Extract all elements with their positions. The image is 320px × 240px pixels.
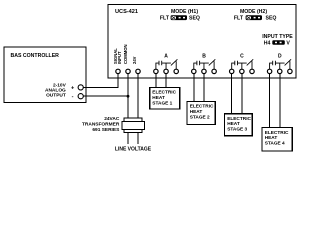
terminal D2 [278,69,282,73]
terminal COMMON [126,69,130,73]
svg-text:ELECTRIC: ELECTRIC [265,130,289,136]
junction node [127,95,130,98]
svg-text:FLT: FLT [234,16,244,22]
svg-text:24V: 24V [132,56,137,64]
svg-text:V: V [286,41,290,47]
terminal C1 [230,69,234,73]
terminal D1 [267,69,271,73]
terminal BAS - [78,94,83,99]
wire B1 to stage 2 [193,74,195,102]
svg-text:BAS CONTROLLER: BAS CONTROLLER [11,53,60,59]
terminal D3 [288,69,292,73]
svg-text:STAGE 3: STAGE 3 [227,127,247,133]
svg-text:ELECTRIC: ELECTRIC [190,104,214,110]
relay contact A [156,59,178,69]
svg-text:STAGE 4: STAGE 4 [265,141,285,147]
wire A2 to stage 1 [165,74,167,88]
svg-text:B: B [202,53,206,59]
terminal A2 [164,69,168,73]
svg-text:SEQ: SEQ [266,16,277,22]
svg-text:STAGE 1: STAGE 1 [152,100,172,106]
jumper block W2 (MODE H2) [246,15,262,20]
relay contact B [194,59,216,69]
svg-text:A: A [164,53,168,59]
svg-text:SEQ: SEQ [189,16,200,22]
svg-text:FLT: FLT [160,16,170,22]
svg-text:STAGE 2: STAGE 2 [190,114,210,120]
wire D2 to stage 4 [279,74,281,128]
svg-text:-: - [72,94,74,100]
UCS-421 controller box U1 [108,5,296,79]
terminal C2 [240,69,244,73]
terminal 24V [136,69,140,73]
wire BAS - to COMMON [83,95,128,97]
svg-text:HEAT: HEAT [152,95,165,101]
terminal BAS + [78,85,83,90]
svg-text:D: D [278,53,282,59]
svg-text:UCS-421: UCS-421 [115,9,138,15]
svg-text:691 SERIES: 691 SERIES [92,127,120,133]
terminal A1 [154,69,158,73]
electric heat stage 4 box [262,128,292,151]
svg-text:ELECTRIC: ELECTRIC [152,90,176,96]
svg-text:24VAC: 24VAC [104,116,120,122]
svg-text:HEAT: HEAT [227,121,240,127]
wire C2 to stage 3 [241,74,243,114]
svg-text:TRANSFORMER: TRANSFORMER [82,121,120,127]
terminal SIGNAL INPUT [116,69,120,73]
svg-text:C: C [240,53,244,59]
electric heat stage 3 box [225,114,253,136]
transformer T1 24VAC 691 series [122,118,145,133]
wire B2 to stage 2 [203,74,205,102]
svg-text:H4: H4 [264,41,271,47]
wire C1 to stage 3 [231,74,233,114]
svg-text:HEAT: HEAT [265,135,278,141]
relay contact C [232,59,254,69]
svg-text:MODE (H2): MODE (H2) [240,9,267,15]
terminal B3 [212,69,216,73]
wire COMMON down to transformer [127,74,129,119]
relay contact D [270,59,292,69]
wire A1 to stage 1 [155,74,157,88]
terminal C3 [250,69,254,73]
svg-text:LINE VOLTAGE: LINE VOLTAGE [115,146,152,152]
electric heat stage 2 box [187,101,215,124]
wire D1 to stage 4 [269,74,271,128]
wire BAS + to SIGNAL INPUT [83,74,118,88]
terminal B1 [192,69,196,73]
terminal A3 [174,69,178,73]
svg-text:ELECTRIC: ELECTRIC [227,116,251,122]
svg-text:OUTPUT: OUTPUT [46,93,66,99]
svg-text:HEAT: HEAT [190,109,203,115]
jumper block W1 (MODE H1) [171,15,187,20]
wire 24V down to transformer [137,74,139,119]
jumper block W3 (INPUT TYPE) [272,40,285,45]
svg-text:COMMON: COMMON [123,44,128,64]
BAS controller box [4,47,86,102]
svg-text:INPUT: INPUT [117,51,122,64]
wire transformer primary to line voltage [128,132,138,144]
svg-text:INPUT TYPE: INPUT TYPE [262,34,293,40]
svg-text:MODE (H1): MODE (H1) [171,9,198,15]
terminal B2 [202,69,206,73]
electric heat stage 1 box [150,87,180,109]
